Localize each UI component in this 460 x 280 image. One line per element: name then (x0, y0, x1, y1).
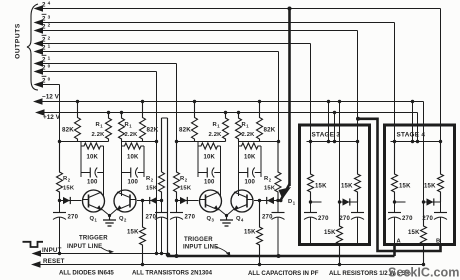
label 15K reset (244, 230, 256, 236)
resistor 15K right (Stage 3) (355, 142, 361, 203)
svg-text:4: 4 (48, 0, 51, 5)
svg-text:INPUT LINE: INPUT LINE (67, 244, 102, 250)
wire collector node right (stage 1) (122, 141, 157, 143)
label 10K right (244, 155, 256, 161)
svg-text:SeekIC.com: SeekIC.com (388, 266, 459, 280)
svg-text:82K: 82K (62, 127, 74, 134)
resistor R1 2.2K left (stage 3) (223, 113, 229, 142)
svg-text:2.2K: 2.2K (209, 132, 223, 138)
label R2 left (180, 176, 192, 192)
svg-text:2: 2 (48, 22, 51, 27)
node label 2-bar^1 (42, 55, 51, 63)
stage box Stage 4 (385, 125, 455, 245)
svg-text:2: 2 (42, 37, 46, 44)
wire output drop to stage left collector (x=59.5) (59, 85, 61, 142)
resistor 15K left (Stage 3) (308, 142, 314, 203)
label 10K right (127, 155, 139, 161)
svg-text:2: 2 (48, 35, 51, 40)
label 82K right (147, 127, 159, 134)
label INPUT (42, 247, 62, 254)
wire -12V tap dot into stage 4 (411, 100, 414, 143)
resistor 15K right (Stage 4) (438, 142, 444, 203)
junction stage node-left tap (58, 140, 61, 143)
junction 15K hang on base line (258, 199, 261, 202)
ground (stage 1) (103, 216, 116, 227)
label R1 left (92, 122, 106, 138)
label R1 right (125, 122, 139, 138)
watermark SeekIC.com (388, 266, 459, 280)
wire RESET line (31, 261, 424, 267)
wire collector riser Q1 (103, 177, 105, 196)
resistor R1 2.2K right (stage 1) (119, 113, 125, 142)
junction base-left on tap column (58, 199, 61, 202)
junction node right Stage 4 (439, 140, 442, 143)
svg-text:−12 V: −12 V (42, 94, 60, 101)
svg-text:2.2K: 2.2K (92, 132, 106, 138)
node label 2-bar^2 (42, 35, 51, 43)
svg-text:82K: 82K (264, 127, 276, 134)
svg-text:D: D (288, 199, 292, 205)
label 82K right (264, 127, 276, 134)
junction R1 right on +12V rail (237, 111, 240, 114)
junction R1 left on +12V rail (107, 111, 110, 114)
node label 2-bar^3 (42, 14, 51, 22)
wire output 2-bar^1 (y=63.5) to x=176.5 (34, 60, 177, 66)
svg-text:3: 3 (48, 14, 51, 19)
node label 2^0 (42, 63, 51, 71)
resistor 10K left with capacitor 100 (stage 3) (198, 142, 221, 178)
wire +12V rail (ends turning down into stage 4) (35, 109, 419, 143)
wire thick carry line from output 2^4 (288, 7, 292, 187)
svg-text:TRIGGER: TRIGGER (184, 237, 213, 243)
diode base-left (stage 3) (180, 197, 187, 204)
wire output drop into Stage 3 right (357, 31, 359, 142)
wire output 2-bar^0 (y=84.5) to x=59.5 (34, 81, 60, 87)
label 270 right (stage 2) (262, 215, 273, 221)
svg-text:15K: 15K (315, 184, 327, 190)
label 10K left (203, 155, 215, 161)
svg-text:TRIGGER: TRIGGER (79, 236, 108, 242)
junction node right Stage 3 (356, 140, 359, 143)
svg-text:2: 2 (42, 24, 46, 31)
resistor 15K lower (Stage 3) (337, 202, 343, 265)
node label 2^1 (42, 43, 51, 51)
transistor Q4 (231, 190, 253, 212)
resistor 10K right with capacitor 100 (stage 1) (122, 142, 145, 178)
node label 2^2 (42, 22, 51, 30)
label Stage 4 (397, 132, 426, 139)
node A (Stage 4) (397, 239, 402, 245)
junction R1 left on +12V rail (224, 111, 227, 114)
junction base-right stage 1 (160, 199, 163, 202)
svg-text:STAGE 3: STAGE 3 (312, 132, 341, 139)
wire -12V rail (ends turning down into stage 4) (33, 98, 424, 104)
capacitor 270 (stage 2 right trigger) (272, 201, 285, 257)
label R1 left (209, 122, 223, 138)
svg-text:100: 100 (87, 180, 98, 186)
wire output drop into Stage 4 right (440, 9, 442, 142)
R2 15K right (stage 2) (275, 142, 281, 201)
svg-text:270: 270 (146, 215, 157, 221)
capacitor 270 left (Stage 4) (388, 202, 401, 244)
wire node line Stage 4 (391, 141, 441, 143)
label 15K right (Stage 4) (424, 184, 436, 190)
svg-text:15K: 15K (324, 230, 336, 236)
junction stub left (Stage 4) (393, 200, 406, 203)
svg-text:B: B (436, 239, 440, 245)
svg-text:ALL CAPACITORS IN PF: ALL CAPACITORS IN PF (248, 270, 319, 277)
label 270 left (185, 215, 196, 221)
svg-text:15K: 15K (63, 186, 75, 192)
label RESET (43, 258, 65, 265)
svg-text:270: 270 (262, 215, 273, 221)
resistor R1 2.2K right (stage 3) (236, 113, 242, 142)
svg-text:INPUT LINE: INPUT LINE (183, 245, 218, 251)
diode D1 (steering, diagonal) (279, 184, 292, 200)
capacitor 270 right (Stage 3) (351, 202, 364, 244)
label 15K lower (Stage 3) (324, 230, 336, 236)
label R2 left (63, 176, 75, 192)
junction base-left on tap column (175, 199, 178, 202)
resistor 82K left (stage 1) (75, 102, 81, 142)
label -12V (42, 94, 60, 101)
label 100 right (127, 180, 138, 186)
label 270 left (Stage 3) (318, 216, 329, 222)
label Q2 (119, 216, 127, 223)
capacitor 270 (stage 1 left trigger) (53, 201, 66, 254)
junction stage node-right tap (277, 140, 280, 143)
transistor Q1 (83, 190, 105, 212)
wire thick carry stage3 to stage4 (node B) (356, 117, 441, 251)
svg-text:10K: 10K (86, 155, 98, 161)
note all diodes (59, 270, 114, 277)
svg-text:OUTPUTS: OUTPUTS (15, 23, 22, 59)
label OUTPUTS (vertical) (15, 23, 22, 59)
resistor 82K right (stage 1) (140, 102, 146, 142)
label Q3 (207, 216, 215, 223)
label TRIGGER INPUT LINE (stage 1) (67, 236, 114, 254)
label R1 right (242, 122, 256, 138)
wire output drop to stage right collector (x=156.5) (156, 72, 158, 142)
input pulse symbol (23, 242, 44, 247)
diode base-right (stage 1) (150, 197, 157, 204)
wire output 2-bar^3 (y=22.5) to x=394.5 (34, 19, 395, 25)
label 15K left (Stage 4) (399, 184, 411, 190)
stage box Stage 3 (300, 125, 370, 245)
wire base line Q3 (177, 200, 199, 202)
resistor 82K right (stage 3) (257, 102, 263, 142)
wire collector node left (stage 3) (177, 141, 226, 143)
svg-text:10K: 10K (203, 155, 215, 161)
wire output drop to stage left collector (x=176.5) (176, 64, 178, 142)
wire node line Stage 3 (307, 141, 358, 143)
capacitor 270 left (Stage 3) (304, 202, 317, 244)
svg-text:100: 100 (244, 180, 255, 186)
label 100 right (244, 180, 255, 186)
label R2 right (stage 1) (146, 176, 158, 192)
svg-text:10K: 10K (244, 155, 256, 161)
junction input col 156.5 (155, 252, 163, 255)
label 82K left (stage 3) (179, 127, 191, 134)
wire output 2^0 (y=71.5) to x=156.5 (34, 68, 157, 74)
label 15K left (Stage 3) (315, 184, 327, 190)
svg-text:15K: 15K (244, 230, 256, 236)
svg-text:270: 270 (185, 215, 196, 221)
wire hat detour (stage 1 to trigger) (162, 118, 168, 256)
wire thick trigger line (167, 245, 395, 257)
svg-text:15K: 15K (127, 230, 139, 236)
svg-text:ALL DIODES IN645: ALL DIODES IN645 (59, 270, 114, 277)
wire output 2^2 (y=30.5) to x=357.5 (34, 27, 358, 33)
capacitor 270 (stage 1 right trigger) (155, 201, 168, 254)
wire base line Q1 (60, 200, 82, 202)
label 270 right (stage 1) (146, 215, 157, 221)
resistor R1 2.2K left (stage 1) (106, 113, 112, 142)
label TRIGGER INPUT LINE (stage 2) (183, 237, 231, 257)
wire output drop into Stage 4 left (394, 23, 396, 142)
svg-text:15K: 15K (424, 184, 436, 190)
junction D1 to base line (279, 199, 282, 202)
capacitor 270 (stage 3 left trigger) (170, 201, 183, 257)
node label 2-bar^0 (42, 76, 51, 84)
label 100 left (87, 180, 98, 186)
resistor R2 15K left (stage 1) (57, 142, 63, 201)
svg-text:270: 270 (68, 215, 79, 221)
label 15K reset (127, 230, 139, 236)
wire output 2^1 (y=51.5) to x=278.5 (34, 48, 279, 54)
wire collector node left (stage 1) (60, 141, 109, 143)
svg-text:2: 2 (42, 78, 46, 85)
brace for outputs bus (27, 4, 38, 90)
junction stage node-right tap (155, 140, 158, 143)
wire collector node right (stage 3) (239, 141, 279, 143)
svg-text:15K: 15K (408, 230, 420, 236)
wire emitters of Q3,Q4 to ground (219, 209, 235, 217)
label 100 left (204, 180, 215, 186)
note all resistors (329, 270, 411, 277)
svg-text:100: 100 (204, 180, 215, 186)
svg-text:1: 1 (48, 43, 51, 48)
diode base-left (stage 1) (63, 197, 70, 204)
note all transistors (132, 270, 213, 277)
resistor 15K reset (stage 3) (257, 201, 263, 265)
wire right tap continues down (156, 142, 158, 254)
svg-text:2.2K: 2.2K (242, 132, 256, 138)
wire diode row (Stage 3) (338, 200, 358, 203)
wire supply tap x=334.5 into Stage 3 (333, 111, 336, 143)
wire collector riser Q4 (238, 177, 240, 196)
svg-text:100: 100 (127, 180, 138, 186)
junction node left Stage 4 (393, 140, 396, 143)
node label 2^4 (42, 0, 51, 8)
wire middle column from -12V rail end (Stage 4) (423, 102, 425, 203)
svg-text:15K: 15K (399, 184, 411, 190)
junction 15K on reset line (258, 263, 261, 266)
wire collector riser Q2 (121, 177, 123, 196)
svg-text:270: 270 (339, 216, 350, 222)
svg-text:RESET: RESET (43, 258, 65, 265)
resistor 15K reset (stage 1) (140, 201, 146, 265)
wire base line Q2 (137, 200, 162, 202)
svg-text:1: 1 (48, 55, 51, 60)
label 15K lower (Stage 4) (408, 230, 420, 236)
label Stage 3 (312, 132, 341, 139)
resistor 10K right with capacitor 100 (stage 3) (239, 142, 262, 178)
svg-text:270: 270 (402, 216, 413, 222)
svg-text:2.2K: 2.2K (125, 132, 139, 138)
junction lower 15K on reset (Stage 3) (338, 263, 341, 266)
capacitor 270 right (Stage 4) (434, 202, 447, 244)
label +12V (43, 114, 61, 121)
ground (stage 3) (220, 216, 233, 227)
svg-text:2: 2 (42, 45, 46, 52)
label 10K left (86, 155, 98, 161)
junction input to stage1 trigger (58, 252, 61, 255)
label D1 (288, 199, 296, 206)
label 270 left (Stage 4) (402, 216, 413, 222)
label 270 right (Stage 4) (422, 216, 433, 222)
svg-text:15K: 15K (180, 186, 192, 192)
diode steering (Stage 4) (427, 198, 434, 205)
wire emitters of Q1,Q2 to ground (102, 209, 118, 217)
wire supply tap x=328.5 into Stage 3 (327, 100, 330, 143)
junction node left Stage 3 (309, 140, 312, 143)
junction 82K left on -12V rail (76, 100, 79, 103)
junction 82K right on -12V rail (258, 100, 261, 103)
wire output drop into Stage 3 left (310, 44, 312, 142)
transistor Q2 (114, 190, 136, 212)
resistor 10K left with capacitor 100 (stage 1) (81, 142, 104, 178)
resistor R2 15K right (stage 1) (159, 172, 165, 201)
junction R1 right on +12V rail (120, 111, 123, 114)
svg-text:0: 0 (48, 76, 51, 81)
transistor Q3 (200, 190, 222, 212)
junction 15K hang on base line (141, 199, 144, 202)
wire output 2-bar^2 (y=43.5) to x=310.5 (34, 40, 311, 46)
junction lower 15K on reset (Stage 4) (422, 263, 425, 266)
wire output 2^4 (y=8.5) to x=440.5 (34, 5, 441, 11)
svg-text:+12 V: +12 V (43, 114, 61, 121)
junction 15K on reset line (141, 263, 144, 266)
node B (Stage 4) (436, 239, 440, 245)
label 270 left (68, 215, 79, 221)
wire diode row (Stage 4) (422, 200, 441, 203)
svg-text:STAGE 4: STAGE 4 (397, 132, 426, 139)
svg-text:2: 2 (42, 57, 46, 64)
diode steering (Stage 3) (343, 198, 350, 205)
label 15K right (Stage 3) (341, 184, 353, 190)
junction stage node-left tap (175, 140, 178, 143)
wire output drop to stage right collector (x=278.5) (278, 52, 280, 142)
svg-text:0: 0 (48, 63, 51, 68)
label Q4 (236, 216, 244, 223)
wire base line Q4 (254, 200, 279, 202)
label 82K left (stage 1) (62, 127, 74, 134)
svg-text:2: 2 (42, 16, 46, 23)
resistor 15K lower (Stage 4) (421, 202, 427, 265)
junction 82K right on -12V rail (141, 100, 144, 103)
diode base-right (stage 3) (267, 197, 274, 204)
label R2 right (stage 2) (264, 176, 276, 192)
svg-text:15K: 15K (264, 186, 276, 192)
resistor 15K left (Stage 4) (392, 142, 398, 203)
svg-text:ALL TRANSISTORS 2N1304: ALL TRANSISTORS 2N1304 (132, 270, 213, 277)
svg-text:10K: 10K (127, 155, 139, 161)
svg-text:15K: 15K (146, 186, 158, 192)
svg-text:A: A (397, 239, 402, 245)
wire INPUT line (32, 250, 169, 256)
resistor R2 15K left (stage 3) (174, 142, 180, 201)
svg-text:270: 270 (318, 216, 329, 222)
junction 82K left on -12V rail (193, 100, 196, 103)
label Q1 (90, 216, 98, 223)
label 270 right (Stage 3) (339, 216, 350, 222)
svg-text:82K: 82K (179, 127, 191, 134)
resistor 82K left (stage 3) (192, 102, 198, 142)
note all capacitors (248, 270, 319, 277)
junction stub left (Stage 3) (309, 200, 322, 203)
junction base-right stage 2 (276, 199, 279, 202)
svg-text:2: 2 (42, 2, 46, 9)
wire middle column from -12V rail (Stage 3) (338, 100, 341, 202)
svg-text:2: 2 (42, 65, 46, 72)
junction trigger start (166, 253, 281, 259)
svg-text:15K: 15K (341, 184, 353, 190)
wire collector riser Q3 (220, 177, 222, 196)
